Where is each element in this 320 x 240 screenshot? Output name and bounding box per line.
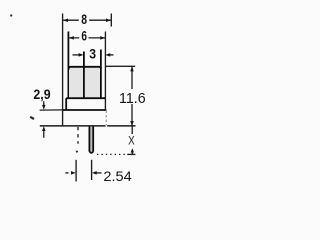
dim 2.54 right arrow (pointing left)	[92, 171, 97, 175]
svg-text:2,9: 2,9	[33, 86, 50, 102]
dim 11.6 bottom arrowhead	[130, 121, 134, 126]
dim 6 right arrowhead	[100, 36, 105, 40]
dim 8 line	[63, 19, 111, 21]
base top line	[63, 109, 107, 111]
base bottom line with extensions	[40, 125, 136, 127]
cylinder seam / 3-dim left extension	[83, 52, 85, 99]
dim 2,9 bottom arrow (pointing up)	[42, 126, 46, 131]
hidden lead dashed	[77, 127, 79, 144]
svg-text:2.54: 2.54	[103, 168, 132, 184]
left extension line (8-dim left / base left edge)	[62, 14, 64, 126]
dim 8 left arrowhead	[63, 18, 68, 22]
cylinder top edge with corners	[68, 67, 101, 70]
base right edge (faint)	[105, 111, 107, 126]
dim 2.54 left bar	[75, 160, 77, 182]
lead tip level: solid bar at dim line	[127, 153, 135, 155]
dim 11.6 top extension line	[106, 65, 136, 67]
dim 3 right arrow (outside, pointing left)	[105, 53, 110, 57]
dim 6 line	[69, 37, 105, 39]
lead left edge	[88, 127, 90, 152]
cylinder interior shading	[69, 68, 100, 98]
dim 3 left arrow (outside, pointing right)	[73, 54, 79, 56]
dim 6 left arrowhead	[69, 36, 74, 40]
lead tip level: dotted line	[97, 153, 128, 155]
lead rounded tip	[89, 151, 93, 153]
6-dim right extension / flange right edge	[104, 32, 106, 110]
flange top line	[66, 97, 105, 99]
dim 11.6 line (gap for label)	[131, 66, 133, 126]
lead core fill	[89, 127, 93, 153]
flange left edge	[65, 98, 67, 110]
6-dim left extension / cylinder left edge	[67, 32, 69, 98]
svg-text:3: 3	[89, 46, 96, 62]
speck dash left	[30, 117, 34, 119]
dim X bottom arrow (pointing up at label)	[131, 148, 134, 152]
base top left extension line	[40, 109, 63, 111]
dim 2.54 right bar	[91, 160, 93, 180]
dim 2,9 top arrow (pointing down)	[43, 101, 45, 105]
cylinder right edge / 3-dim right extension	[100, 50, 102, 99]
svg-text:6: 6	[81, 28, 87, 44]
8-dim right short bar	[110, 14, 112, 27]
dim 8 right arrowhead	[106, 18, 111, 22]
hidden lead tip mark	[76, 151, 79, 154]
svg-text:11.6: 11.6	[119, 91, 146, 107]
dim 11.6 top arrowhead	[130, 66, 134, 71]
speck dot top-left	[10, 14, 12, 16]
svg-text:8: 8	[81, 11, 87, 27]
dim X line stub below base line	[131, 126, 133, 134]
dim 2.54 left arrow (pointing right)	[65, 172, 68, 174]
svg-text:X: X	[128, 136, 135, 148]
lead right edge	[92, 127, 94, 152]
